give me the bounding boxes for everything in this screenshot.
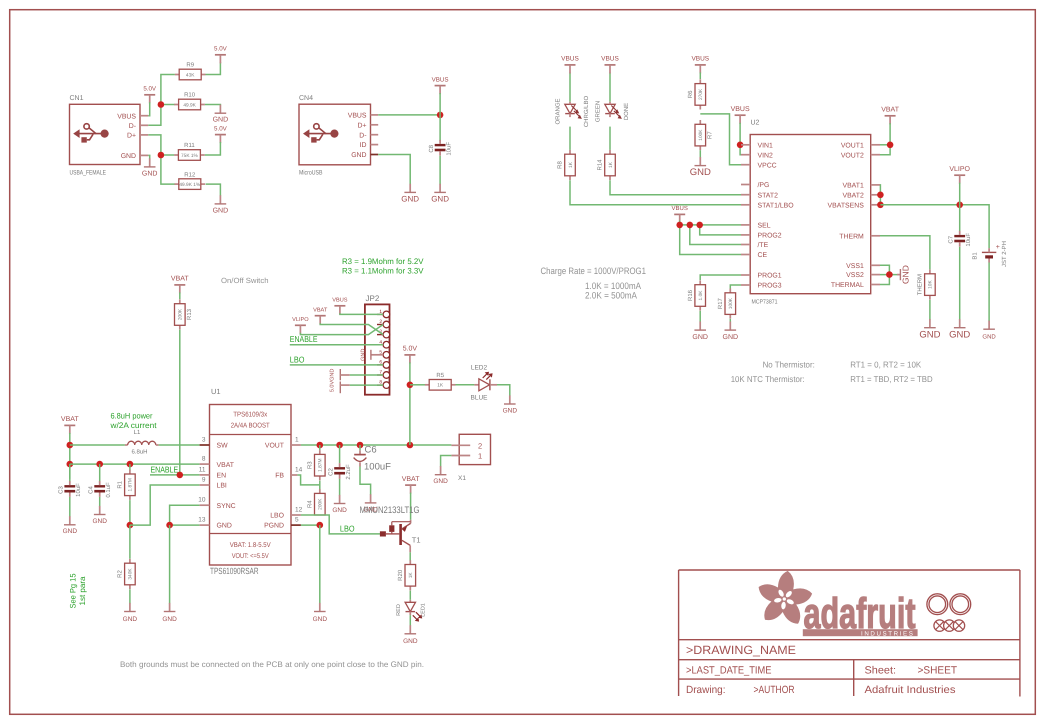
svg-text:R12: R12 xyxy=(184,171,196,178)
supply 5.0V at R9 xyxy=(214,46,228,64)
ground GND at C8 xyxy=(431,184,449,204)
svg-text:VLIPO: VLIPO xyxy=(949,166,970,173)
supply 5.0V at R5 xyxy=(403,346,418,364)
svg-text:VBUS: VBUS xyxy=(691,56,709,63)
svg-text:VBAT: VBAT xyxy=(881,107,899,114)
svg-text:R20: R20 xyxy=(397,569,404,581)
supply VBUS at R6 xyxy=(691,56,709,74)
svg-text:VBAT: VBAT xyxy=(217,462,235,469)
LED CHRG/LBO orange xyxy=(565,102,582,119)
svg-text:VBATSENS: VBATSENS xyxy=(828,202,865,209)
svg-text:100uF: 100uF xyxy=(364,462,391,473)
svg-text:THERM: THERM xyxy=(839,233,864,240)
wire net USB D+ down to R12 xyxy=(148,135,175,184)
ground GND at R12 xyxy=(213,195,229,214)
wire R3 to R4 xyxy=(319,481,321,494)
svg-text:VBUS: VBUS xyxy=(117,113,136,120)
svg-text:10: 10 xyxy=(198,497,206,504)
svg-text:8: 8 xyxy=(202,456,206,463)
wire to R5 xyxy=(410,384,426,386)
wire VBAT to VOUT1 VOUT2 xyxy=(880,123,890,154)
wire R16 to GND xyxy=(699,311,701,322)
wire CN4 GND pin xyxy=(378,155,410,185)
svg-text:EN: EN xyxy=(217,473,227,480)
CN4 USB icon xyxy=(303,124,339,143)
wire VBAT to R13 xyxy=(179,292,181,299)
ground GND rotated at JP2 pin5 xyxy=(361,349,384,361)
supply VBAT at T1 xyxy=(402,476,420,494)
CN1 USB icon xyxy=(73,124,109,143)
capacitor C6 100uF electrolytic xyxy=(354,450,367,466)
svg-text:R13: R13 xyxy=(186,308,193,320)
svg-text:R5: R5 xyxy=(436,372,444,379)
svg-text:>SHEET: >SHEET xyxy=(918,665,958,677)
wire thermistor to GND xyxy=(929,300,931,320)
junction VBATSENS xyxy=(877,202,884,209)
svg-text:5: 5 xyxy=(295,517,299,524)
svg-text:TPS61090RSAR: TPS61090RSAR xyxy=(210,566,259,576)
svg-text:GND: GND xyxy=(142,171,158,178)
wire VBUS to VIN1 VIN2 xyxy=(739,123,742,155)
wire CN1 GND pin xyxy=(148,155,149,159)
wire VSS1 VSS2 THERMAL bus xyxy=(880,265,889,284)
wire SEL row xyxy=(680,224,741,226)
supply VBUS at CHRG LED xyxy=(561,56,579,74)
logo circles XXX xyxy=(934,620,965,631)
adafruit logo flower xyxy=(759,571,813,624)
adafruit logo industries bar xyxy=(803,629,918,637)
wire R10 to GND xyxy=(205,104,221,107)
svg-text:USBA_FEMALE: USBA_FEMALE xyxy=(70,170,107,177)
svg-text:RT1 = 0, RT2 = 10K: RT1 = 0, RT2 = 10K xyxy=(850,360,921,370)
svg-text:1: 1 xyxy=(295,437,299,444)
supply VBAT at R13 xyxy=(171,276,189,294)
JP2 pin numbers xyxy=(379,309,382,386)
svg-text:VBUS: VBUS xyxy=(601,56,619,63)
wire VBAT to JP2 pin3 crossing xyxy=(320,323,383,334)
svg-text:CN4: CN4 xyxy=(299,95,313,102)
junction VBAT2 xyxy=(877,192,884,199)
wire FB route xyxy=(297,475,319,485)
svg-text:LBO: LBO xyxy=(270,513,284,520)
svg-text:R3 = 1.9Mohm for 5.2V: R3 = 1.9Mohm for 5.2V xyxy=(342,257,424,266)
svg-text:D-: D- xyxy=(129,123,136,130)
wire ENABLE to EN pin xyxy=(150,474,200,476)
junction R3 xyxy=(317,442,324,449)
svg-text:1.87M: 1.87M xyxy=(128,478,134,491)
svg-text:GND: GND xyxy=(123,616,138,623)
svg-text:5.0V: 5.0V xyxy=(214,46,228,53)
wire VLIPO down xyxy=(959,183,961,205)
svg-text:VOUT: VOUT xyxy=(265,443,285,450)
wire R9 to 5.0V xyxy=(206,62,221,75)
svg-text:C6: C6 xyxy=(365,445,377,456)
svg-text:MMUN2133LT1G: MMUN2133LT1G xyxy=(360,505,420,516)
svg-text:No Thermistor:: No Thermistor: xyxy=(763,360,815,370)
wire JP2 pin7 xyxy=(350,374,383,376)
wire C8 to GND xyxy=(439,156,441,185)
wire net USB D- to R9/R10 xyxy=(148,75,175,126)
junction C6 xyxy=(357,442,364,449)
supply VLIPO xyxy=(949,166,970,184)
svg-text:VBAT: VBAT xyxy=(61,416,79,423)
resistor R5 xyxy=(425,372,456,390)
svg-text:1: 1 xyxy=(478,452,482,461)
svg-text:GND: GND xyxy=(503,407,518,414)
svg-text:VBUS: VBUS xyxy=(348,113,367,120)
svg-text:Charge Rate = 1000V/PROG1: Charge Rate = 1000V/PROG1 xyxy=(541,266,647,276)
capacitor C3 10uF xyxy=(58,481,83,497)
capacitor C7 10uF xyxy=(947,231,972,247)
svg-text:>AUTHOR: >AUTHOR xyxy=(754,684,795,696)
wire D- branch to R10 xyxy=(161,104,175,106)
svg-text:VBAT: VBAT xyxy=(171,276,189,283)
supply 5.0V at R11 xyxy=(214,125,228,143)
svg-text:VBAT: VBAT xyxy=(313,308,328,314)
ground GND at R17 xyxy=(723,322,739,341)
svg-text:>DRAWING_NAME: >DRAWING_NAME xyxy=(686,643,796,657)
svg-text:D+: D+ xyxy=(357,122,366,129)
wire VBUS node down to C8 xyxy=(439,115,441,141)
svg-text:GREEN: GREEN xyxy=(595,101,602,122)
logo rings OO xyxy=(927,594,971,615)
svg-text:JP2: JP2 xyxy=(366,294,380,303)
svg-text:PROG3: PROG3 xyxy=(758,283,782,290)
resistor R9 xyxy=(175,62,206,80)
X1 pin 2 stub xyxy=(451,444,470,446)
junction SEL 2 xyxy=(687,222,694,229)
wire R20 to LED1 xyxy=(409,591,411,600)
wire to /TE xyxy=(690,225,741,245)
svg-text:14: 14 xyxy=(295,466,303,473)
IC U1 TPS61090 body xyxy=(210,405,292,566)
svg-text:LBO: LBO xyxy=(340,524,355,534)
svg-text:PROG1: PROG1 xyxy=(758,273,782,280)
svg-text:R1: R1 xyxy=(117,480,124,488)
U2 right pin stubs xyxy=(871,145,880,285)
ground GND at CN4 xyxy=(401,184,419,204)
wire node to C7 xyxy=(959,205,961,231)
wire R14 to STAT2 xyxy=(610,180,741,194)
svg-text:SW: SW xyxy=(217,443,229,450)
wire VLIPO to JP2 pin2 crossing xyxy=(300,325,383,335)
svg-text:LBO: LBO xyxy=(290,354,305,364)
LED LED1 red xyxy=(405,600,422,622)
wire R8 to STAT1/LBO xyxy=(570,180,741,205)
svg-text:R9: R9 xyxy=(186,62,194,69)
wire PGND row xyxy=(301,524,320,526)
svg-text:FB: FB xyxy=(275,473,284,480)
svg-text:10K NTC Thermistor:: 10K NTC Thermistor: xyxy=(731,374,805,384)
wire R12 to GND xyxy=(206,184,221,196)
LED DONE green xyxy=(605,102,622,119)
wire R7 to GND xyxy=(699,150,701,157)
ground GND at R10 xyxy=(213,105,229,124)
svg-text:RT1 = TBD, RT2 = TBD: RT1 = TBD, RT2 = TBD xyxy=(850,374,933,384)
svg-text:2: 2 xyxy=(478,441,482,450)
svg-text:3: 3 xyxy=(202,437,206,444)
wire PROG1 to R16 xyxy=(700,275,741,280)
svg-text:VBUS: VBUS xyxy=(561,56,579,63)
wire R6/R7 junction to VPCC xyxy=(700,114,741,165)
wire VBATSENS to battery xyxy=(880,205,989,248)
svg-text:Both grounds must be connected: Both grounds must be connected on the PC… xyxy=(120,660,424,669)
transistor T1 MMUN2133LT1G xyxy=(380,520,411,553)
junction SYNC GND xyxy=(166,522,173,529)
svg-text:GND: GND xyxy=(361,349,367,361)
svg-text:11: 11 xyxy=(199,466,206,473)
wire C6 to GND xyxy=(360,467,371,496)
wire VBAT rail down xyxy=(69,433,71,479)
svg-text:5.0V: 5.0V xyxy=(143,86,157,93)
supply 5.0V rotated at JP2 pin8 xyxy=(330,381,350,394)
svg-text:49.9K 1%: 49.9K 1% xyxy=(179,182,201,188)
ground GND at B1 xyxy=(982,321,996,341)
svg-text:100K: 100K xyxy=(698,129,704,141)
wire battery to GND xyxy=(988,263,990,322)
svg-text:VPCC: VPCC xyxy=(758,162,777,169)
svg-text:GND: GND xyxy=(217,523,232,530)
header JP2 body xyxy=(365,304,390,394)
svg-text:1K: 1K xyxy=(608,161,614,168)
svg-text:R17: R17 xyxy=(717,297,724,309)
wire SYNC route xyxy=(170,505,200,525)
svg-text:U1: U1 xyxy=(211,387,221,396)
LED LED2 blue xyxy=(474,372,497,391)
wire VBUS to R6 xyxy=(699,72,701,79)
svg-text:GND: GND xyxy=(330,369,336,381)
wire DONE LED to R14 xyxy=(609,127,611,150)
connector X1 body xyxy=(459,434,490,464)
svg-text:INDUSTRIES: INDUSTRIES xyxy=(861,631,914,638)
resistor R1 xyxy=(117,470,136,500)
svg-text:5.0V: 5.0V xyxy=(214,125,228,132)
svg-text:VBUS: VBUS xyxy=(332,298,348,304)
ground GND at C2 xyxy=(332,495,347,514)
svg-text:R14: R14 xyxy=(597,159,604,171)
wire C3 top xyxy=(69,464,71,483)
svg-text:CE: CE xyxy=(758,252,768,259)
ground GND at PGND xyxy=(313,603,328,623)
wire R2 to GND xyxy=(129,589,131,603)
junction VOUT1 xyxy=(887,142,894,149)
wire R1 to LBI node xyxy=(129,500,131,525)
junction PGND xyxy=(317,522,324,529)
svg-text:49.9K: 49.9K xyxy=(183,102,196,108)
ground GND at C4 xyxy=(92,506,107,525)
wire T1 collector to R20 xyxy=(409,552,411,561)
svg-text:CHRG/LBO: CHRG/LBO xyxy=(583,96,590,128)
svg-text:100K: 100K xyxy=(728,297,734,309)
svg-text:200K: 200K xyxy=(178,308,184,320)
capacitor C4 0.1uF xyxy=(87,481,112,498)
svg-text:GND: GND xyxy=(982,333,996,340)
svg-text:GND: GND xyxy=(332,507,347,514)
wire PROG3 to R17 xyxy=(730,285,741,289)
svg-text:JST 2-PH: JST 2-PH xyxy=(1001,241,1008,267)
svg-text:LED2: LED2 xyxy=(471,365,488,372)
svg-text:1st para: 1st para xyxy=(78,576,87,606)
wire SW row to L1 xyxy=(70,444,125,446)
svg-text:T1: T1 xyxy=(412,536,421,545)
CN4 pin stubs xyxy=(371,115,379,155)
wire R11 to D+ vertical xyxy=(161,154,174,156)
junction SEL 1 xyxy=(676,222,683,229)
supply VLIPO at JP2 xyxy=(292,317,309,334)
svg-text:VBAT: 1.8-5.5V: VBAT: 1.8-5.5V xyxy=(230,542,271,549)
svg-text:+: + xyxy=(996,244,1000,251)
svg-text:GND: GND xyxy=(213,208,229,215)
junction C4 top xyxy=(96,461,103,468)
wire C2 to GND xyxy=(339,479,341,496)
svg-text:LED1: LED1 xyxy=(421,603,427,617)
svg-text:R10: R10 xyxy=(184,92,196,99)
svg-text:R3: R3 xyxy=(307,461,314,469)
svg-text:SEL: SEL xyxy=(758,223,771,230)
svg-text:2: 2 xyxy=(379,319,382,325)
wire R2 top xyxy=(129,525,131,559)
svg-text:See Pg 15: See Pg 15 xyxy=(69,573,78,609)
wire VBAT to T1 emitter xyxy=(410,493,412,520)
wire LBO route xyxy=(301,515,380,534)
ground GND rotated at JP2 pin7 xyxy=(330,369,350,381)
svg-text:TPS6109/3x: TPS6109/3x xyxy=(233,411,267,419)
supply VBUS at JP2 xyxy=(332,298,348,315)
junction SEL 3 xyxy=(696,222,703,229)
supply VBAT left rail xyxy=(61,416,79,434)
connector CN4 MicroUSB body xyxy=(299,104,371,165)
wire C2 top xyxy=(339,445,341,463)
ground GND rotated at VSS xyxy=(897,265,911,284)
svg-text:GND: GND xyxy=(919,329,940,340)
wire VBUS supply down xyxy=(439,93,441,115)
ground GND at C7 xyxy=(949,319,970,340)
junction D+ R11 xyxy=(158,152,165,159)
svg-text:ID: ID xyxy=(360,142,367,149)
svg-text:GND: GND xyxy=(162,616,177,623)
svg-text:THERMAL: THERMAL xyxy=(831,282,864,289)
wire VIN1 link xyxy=(739,144,742,146)
wire R13 down to ENABLE node xyxy=(179,330,181,475)
connector CN1 USBA_FEMALE body xyxy=(70,104,141,164)
ground GND at R16 xyxy=(692,322,708,341)
svg-text:VBAT1: VBAT1 xyxy=(842,183,863,190)
svg-text:VIN2: VIN2 xyxy=(758,152,773,159)
svg-text:10K: 10K xyxy=(928,280,934,289)
svg-text:Adafruit Industries: Adafruit Industries xyxy=(865,684,956,696)
IC U2 MCP73871 body xyxy=(750,135,871,294)
supply VBAT at VOUT xyxy=(881,107,899,125)
ground GND at CN1 xyxy=(142,158,158,177)
junction VIN1 xyxy=(737,142,744,149)
resistor R16 xyxy=(687,280,706,310)
wire to PROG2 xyxy=(700,225,741,235)
svg-text:R8: R8 xyxy=(557,161,564,169)
resistor R6 xyxy=(687,79,706,109)
svg-text:/TE: /TE xyxy=(758,242,769,249)
junction VBUS C8 xyxy=(437,112,444,119)
wire C6 top xyxy=(359,445,361,450)
wire U1 GND down xyxy=(169,525,171,603)
wire VBUS to JP2 pin1 xyxy=(340,313,383,314)
U1 right pin names xyxy=(264,443,285,530)
wire VBAT row to U1 xyxy=(70,463,200,465)
note R3 values xyxy=(342,257,424,276)
svg-text:GND: GND xyxy=(901,265,911,284)
svg-text:340K: 340K xyxy=(128,568,134,580)
U2 left pin names xyxy=(758,142,795,289)
svg-text:270K: 270K xyxy=(698,88,704,100)
wire C4 top xyxy=(99,464,101,483)
svg-text:6.8uH power: 6.8uH power xyxy=(111,412,153,421)
junction R1 top xyxy=(127,461,134,468)
svg-text:R6: R6 xyxy=(687,90,694,98)
ground GND at LED2 xyxy=(503,395,518,414)
CN1 pin stubs xyxy=(140,116,148,156)
svg-text:1.0K = 1000mA: 1.0K = 1000mA xyxy=(585,281,642,291)
wire R3 top lead xyxy=(319,445,321,450)
svg-text:VOUT: <=5.5V: VOUT: <=5.5V xyxy=(232,553,269,560)
svg-text:GND: GND xyxy=(403,638,418,645)
svg-text:R7: R7 xyxy=(707,131,714,139)
svg-text:VSS1: VSS1 xyxy=(846,263,864,270)
wire CN4 VBUS to C8 node xyxy=(378,114,440,116)
supply VBAT at JP2 xyxy=(313,308,328,325)
wire VBAT2 link xyxy=(879,194,881,196)
svg-text:ORANGE: ORANGE xyxy=(555,98,562,124)
svg-text:0.1uF: 0.1uF xyxy=(105,482,112,498)
svg-text:2A/4A BOOST: 2A/4A BOOST xyxy=(231,422,271,430)
resistor R17 xyxy=(717,289,736,319)
wire R5 to LED2 xyxy=(456,384,475,386)
wire CHRG LED to R8 xyxy=(569,127,571,150)
wire GND pin row xyxy=(170,524,200,526)
svg-text:GND: GND xyxy=(92,518,107,525)
ground GND at R2 xyxy=(123,603,138,623)
resistor R13 xyxy=(175,299,194,329)
svg-text:200K: 200K xyxy=(318,498,324,510)
svg-text:2.2uF: 2.2uF xyxy=(345,464,352,480)
svg-text:ENABLE: ENABLE xyxy=(290,334,318,344)
svg-text:VBAT: VBAT xyxy=(402,476,420,483)
svg-text:GND: GND xyxy=(63,528,78,535)
svg-text:THERM: THERM xyxy=(917,274,924,295)
svg-text:STAT2: STAT2 xyxy=(758,192,779,199)
svg-text:GND: GND xyxy=(433,478,448,485)
wire C4 to GND xyxy=(99,497,101,507)
junction ENABLE R13 xyxy=(177,472,184,479)
svg-text:PROG2: PROG2 xyxy=(758,233,782,240)
wire L1 to SW pin xyxy=(159,444,200,446)
CN4 pin names VBUS D+ D- ID GND xyxy=(348,113,367,160)
svg-text:B1: B1 xyxy=(972,252,979,260)
ground GND under U1 xyxy=(162,603,177,623)
junction R1 R2 LBI xyxy=(127,522,134,529)
svg-text:10uF: 10uF xyxy=(965,233,972,247)
svg-text:GND: GND xyxy=(949,329,970,340)
wire R1 top lead xyxy=(129,464,131,470)
wire VOUT rail xyxy=(301,444,452,446)
resistor R7 xyxy=(695,120,714,150)
svg-text:10uF: 10uF xyxy=(75,483,82,497)
svg-text:Drawing:: Drawing: xyxy=(686,684,726,696)
svg-text:GND: GND xyxy=(692,334,708,341)
supply VBUS at SEL xyxy=(672,205,688,223)
wire VSS2 link xyxy=(880,274,897,276)
ground GND at C3 xyxy=(63,516,78,535)
svg-text:VBUS: VBUS xyxy=(672,205,688,212)
svg-text:Sheet:: Sheet: xyxy=(865,665,897,677)
